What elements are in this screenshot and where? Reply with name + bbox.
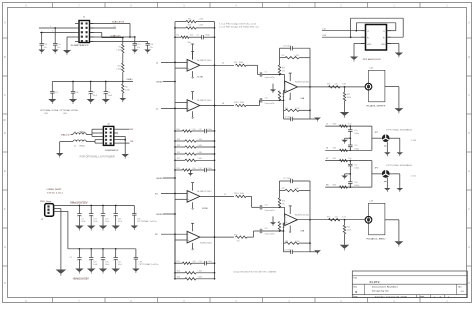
svg-text:R5b: R5b bbox=[188, 25, 191, 27]
svg-text:R1: R1 bbox=[383, 38, 385, 40]
svg-text:OPTIONAL 1uF/1a: OPTIONAL 1uF/1a bbox=[137, 220, 158, 223]
svg-text:C18: C18 bbox=[354, 182, 357, 184]
svg-text:1.62K: 1.62K bbox=[116, 69, 122, 71]
svg-text:47n: 47n bbox=[44, 47, 47, 49]
svg-text:C30: C30 bbox=[75, 92, 78, 94]
svg-text:C11 1/8a: C11 1/8a bbox=[284, 117, 291, 119]
svg-text:RCAV4_RED: RCAV4_RED bbox=[367, 238, 387, 241]
svg-text:C25: C25 bbox=[93, 261, 96, 263]
svg-text:47n: 47n bbox=[137, 47, 140, 49]
svg-text:Initially GROUND IF NOT IN USE: Initially GROUND IF NOT IN USE FOR L CHA… bbox=[234, 270, 277, 273]
svg-text:C1: C1 bbox=[70, 257, 72, 259]
svg-text:C21: C21 bbox=[93, 218, 96, 220]
svg-text:NJM2114D: NJM2114D bbox=[295, 82, 310, 84]
svg-text:L16: L16 bbox=[343, 84, 346, 86]
svg-text:2: 2 bbox=[52, 30, 53, 32]
svg-text:L8: L8 bbox=[326, 148, 328, 150]
svg-text:1000p: 1000p bbox=[354, 133, 359, 135]
svg-text:9Ma: 9Ma bbox=[188, 42, 191, 44]
svg-text:Tuesday, January 22, 2019: Tuesday, January 22, 2019 bbox=[375, 295, 408, 298]
svg-text:C2: C2 bbox=[81, 218, 83, 220]
svg-text:C: C bbox=[468, 94, 470, 97]
svg-text:DACOn: DACOn bbox=[61, 134, 71, 137]
svg-text:C11: C11 bbox=[199, 129, 202, 131]
svg-text:100: 100 bbox=[193, 129, 196, 131]
svg-text:C1: C1 bbox=[197, 34, 199, 36]
svg-text:OPTIONAL MIDMAN4: OPTIONAL MIDMAN4 bbox=[386, 164, 413, 167]
svg-text:JUMPERX2: JUMPERX2 bbox=[105, 150, 120, 152]
svg-text:Design by Ian: Design by Ian bbox=[372, 291, 390, 293]
svg-text:C24: C24 bbox=[54, 92, 57, 94]
svg-text:R23: R23 bbox=[282, 68, 285, 70]
svg-text:GND: GND bbox=[156, 214, 163, 216]
svg-text:NJM2114D: NJM2114D bbox=[295, 214, 310, 216]
svg-text:L7: L7 bbox=[326, 124, 328, 126]
svg-text:USB5 56RT: USB5 56RT bbox=[47, 189, 63, 191]
svg-text:R5a: R5a bbox=[188, 18, 191, 20]
svg-text:R22: R22 bbox=[177, 271, 180, 273]
svg-text:R23: R23 bbox=[177, 277, 180, 279]
svg-text:1 Cut FB1 bridge left R16a use: 1 Cut FB1 bridge left R16a used bbox=[219, 23, 256, 26]
svg-text:C27: C27 bbox=[118, 261, 121, 263]
svg-text:G: G bbox=[468, 246, 470, 249]
svg-text:Sheet: Sheet bbox=[419, 295, 424, 298]
svg-text:R15: R15 bbox=[177, 152, 180, 154]
svg-text:100: 100 bbox=[335, 84, 338, 86]
svg-text:OPTIONAL MIDMAN4: OPTIONAL MIDMAN4 bbox=[386, 129, 413, 132]
svg-text:C29: C29 bbox=[139, 261, 142, 263]
svg-text:R30: R30 bbox=[327, 216, 330, 218]
svg-text:3V3: 3V3 bbox=[130, 129, 133, 131]
svg-text:OPTIONAL 1uF/1a: OPTIONAL 1uF/1a bbox=[139, 263, 160, 266]
svg-text:C26: C26 bbox=[105, 261, 108, 263]
svg-text:1000p: 1000p bbox=[208, 168, 213, 170]
svg-text:R12 100: R12 100 bbox=[234, 102, 244, 104]
svg-text:L2: L2 bbox=[74, 146, 76, 148]
svg-text:RCAV4_WHITE: RCAV4_WHITE bbox=[367, 105, 387, 108]
svg-text:1.62K: 1.62K bbox=[116, 50, 122, 52]
svg-text:C7: C7 bbox=[93, 92, 95, 94]
svg-text:47n: 47n bbox=[150, 47, 153, 49]
svg-text:7-9V DC 5.1/2.1: 7-9V DC 5.1/2.1 bbox=[47, 192, 64, 194]
svg-text:R36: R36 bbox=[333, 185, 336, 187]
svg-text:FB100: FB100 bbox=[80, 132, 85, 134]
svg-text:DAC3V3: DAC3V3 bbox=[112, 20, 125, 23]
svg-text:L8: L8 bbox=[114, 26, 116, 28]
svg-text:R7 100: R7 100 bbox=[234, 62, 243, 64]
svg-text:1000p: 1000p bbox=[208, 261, 213, 263]
svg-text:0-YC2: 0-YC2 bbox=[411, 175, 416, 177]
svg-text:JP3: JP3 bbox=[375, 168, 378, 170]
svg-text:OPTIONAL ULTRA: OPTIONAL ULTRA bbox=[60, 109, 79, 112]
svg-text:100: 100 bbox=[190, 34, 193, 36]
svg-text:1000p: 1000p bbox=[354, 185, 359, 187]
svg-text:R31: R31 bbox=[347, 94, 350, 96]
svg-text:L1: L1 bbox=[383, 31, 385, 33]
svg-text:R29: R29 bbox=[327, 84, 330, 86]
svg-text:1: 1 bbox=[50, 26, 51, 28]
svg-text:R26: R26 bbox=[282, 200, 285, 202]
svg-text:L6: L6 bbox=[222, 103, 224, 105]
svg-text:R33: R33 bbox=[333, 124, 336, 126]
svg-text:1.50K: 1.50K bbox=[199, 18, 204, 20]
svg-text:NJM2114D: NJM2114D bbox=[200, 242, 213, 244]
svg-text:2 Cut FB2 bridge left R16b FB2: 2 Cut FB2 bridge left R16b FB2 use bbox=[219, 25, 260, 28]
svg-text:R3: R3 bbox=[177, 34, 179, 36]
svg-text:1.50K: 1.50K bbox=[199, 25, 204, 27]
svg-text:-9Ma/16V/25V: -9Ma/16V/25V bbox=[72, 278, 89, 281]
svg-text:JP2: JP2 bbox=[375, 132, 378, 134]
svg-text:GND: GND bbox=[44, 113, 49, 115]
svg-text:GND2: GND2 bbox=[367, 44, 372, 46]
svg-text:100: 100 bbox=[335, 216, 338, 218]
svg-text:B: B bbox=[355, 290, 357, 294]
svg-text:100: 100 bbox=[237, 241, 240, 243]
svg-text:L-M: L-M bbox=[370, 67, 374, 69]
svg-text:C8: C8 bbox=[108, 92, 110, 94]
svg-text:C13: C13 bbox=[199, 261, 202, 263]
svg-text:R28: R28 bbox=[285, 241, 288, 243]
svg-text:GND: GND bbox=[156, 178, 163, 180]
svg-text:R7: R7 bbox=[326, 158, 328, 160]
svg-text:R27: R27 bbox=[282, 188, 285, 190]
svg-text:R14: R14 bbox=[177, 145, 180, 147]
svg-text:R19 100: R19 100 bbox=[234, 193, 244, 195]
svg-text:R32: R32 bbox=[347, 227, 350, 229]
svg-text:C6: C6 bbox=[265, 72, 267, 74]
svg-text:47n: 47n bbox=[57, 47, 60, 49]
svg-text:R13: R13 bbox=[177, 139, 180, 141]
svg-text:100: 100 bbox=[193, 168, 196, 170]
svg-text:C20: C20 bbox=[265, 228, 268, 230]
svg-text:C: C bbox=[4, 94, 6, 97]
svg-text:FOR OPTIONAL LO-FI POWER: FOR OPTIONAL LO-FI POWER bbox=[80, 156, 115, 159]
svg-text:L16: L16 bbox=[323, 29, 326, 31]
svg-text:GND: GND bbox=[63, 113, 68, 115]
svg-text:C22: C22 bbox=[105, 218, 108, 220]
svg-text:R25: R25 bbox=[285, 108, 288, 110]
svg-text:2-YE8: 2-YE8 bbox=[411, 140, 416, 142]
svg-text:R20: R20 bbox=[234, 234, 237, 236]
svg-text:C19: C19 bbox=[265, 205, 268, 207]
svg-text:C10: C10 bbox=[265, 98, 268, 100]
svg-text:R35: R35 bbox=[333, 158, 336, 160]
svg-text:100: 100 bbox=[348, 124, 351, 126]
svg-text:C23: C23 bbox=[118, 218, 121, 220]
svg-text:C15: C15 bbox=[354, 130, 357, 132]
svg-text:R34: R34 bbox=[333, 148, 336, 150]
svg-text:C12: C12 bbox=[199, 168, 202, 170]
svg-text:C17 100p: C17 100p bbox=[283, 178, 291, 180]
svg-text:FB100: FB100 bbox=[80, 146, 85, 148]
svg-text:D: D bbox=[468, 132, 470, 135]
svg-text:L-M: L-M bbox=[370, 200, 374, 202]
svg-text:L1: L1 bbox=[74, 132, 76, 134]
svg-text:G: G bbox=[4, 246, 6, 249]
svg-text:1000p: 1000p bbox=[205, 34, 210, 36]
svg-text:R2: R2 bbox=[367, 38, 369, 40]
svg-text:R17: R17 bbox=[177, 158, 180, 160]
svg-text:R16: R16 bbox=[323, 35, 326, 37]
svg-text:100: 100 bbox=[193, 261, 196, 263]
svg-text:1000p: 1000p bbox=[354, 168, 359, 170]
svg-text:Document Number: Document Number bbox=[372, 286, 398, 289]
svg-text:H: H bbox=[468, 282, 470, 285]
svg-text:C21 1/8a: C21 1/8a bbox=[284, 249, 291, 251]
svg-text:9Ma/16V/25V: 9Ma/16V/25V bbox=[70, 202, 88, 205]
svg-text:R16: R16 bbox=[177, 129, 180, 131]
svg-text:L5: L5 bbox=[222, 63, 224, 65]
svg-text:L17: L17 bbox=[343, 216, 346, 218]
svg-text:IN-9T2: IN-9T2 bbox=[370, 280, 381, 284]
svg-text:OPTIONAL ULTRA: OPTIONAL ULTRA bbox=[40, 109, 59, 112]
svg-text:R21: R21 bbox=[177, 261, 180, 263]
svg-text:100: 100 bbox=[348, 158, 351, 160]
svg-text:C16: C16 bbox=[354, 145, 357, 147]
svg-text:L7: L7 bbox=[224, 194, 226, 196]
svg-text:1V8: 1V8 bbox=[130, 141, 133, 143]
svg-text:TRS_3mm: TRS_3mm bbox=[40, 201, 52, 203]
svg-text:GND1: GND1 bbox=[381, 44, 386, 46]
svg-text:C17: C17 bbox=[354, 165, 357, 167]
svg-text:GND: GND bbox=[127, 79, 134, 81]
svg-text:R8: R8 bbox=[326, 185, 328, 187]
svg-text:R18: R18 bbox=[177, 168, 180, 170]
svg-text:C28: C28 bbox=[137, 218, 140, 220]
svg-text:D: D bbox=[4, 132, 6, 135]
svg-text:100: 100 bbox=[348, 148, 351, 150]
svg-text:L2: L2 bbox=[367, 31, 369, 33]
svg-text:C: C bbox=[4, 118, 6, 122]
svg-text:JP1 AUDIOX3: JP1 AUDIOX3 bbox=[363, 58, 382, 61]
svg-text:NJM2114D: NJM2114D bbox=[197, 100, 212, 102]
svg-text:JUMPERX2: JUMPERX2 bbox=[71, 45, 90, 47]
svg-text:H: H bbox=[4, 282, 6, 285]
svg-text:Size: Size bbox=[353, 286, 357, 288]
svg-text:Date:: Date: bbox=[353, 295, 358, 298]
svg-text:Rev: Rev bbox=[458, 286, 461, 288]
svg-text:NJM2114D: NJM2114D bbox=[197, 191, 212, 193]
svg-text:1000p: 1000p bbox=[354, 148, 359, 150]
svg-text:NJM2114D: NJM2114D bbox=[197, 60, 212, 62]
svg-text:100: 100 bbox=[348, 185, 351, 187]
svg-text:GND: GND bbox=[156, 82, 163, 84]
svg-text:C9 100p: C9 100p bbox=[283, 45, 291, 47]
svg-text:R21: R21 bbox=[282, 55, 285, 57]
svg-text:1000p: 1000p bbox=[208, 129, 213, 131]
svg-text:1.62K: 1.62K bbox=[125, 90, 131, 92]
